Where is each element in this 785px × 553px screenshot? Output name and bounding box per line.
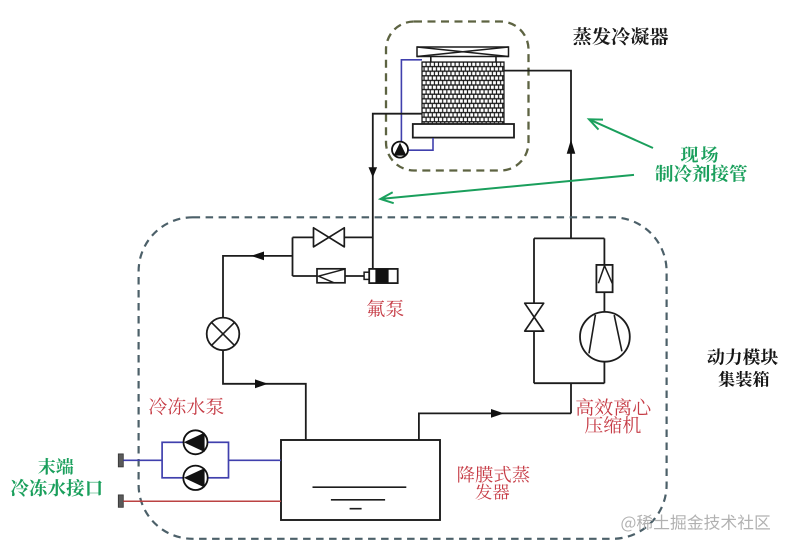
suction line from evaporator (419, 413, 571, 440)
flow arrow left (251, 252, 264, 261)
line from expansion valve to evaporator (223, 350, 306, 440)
suction service valve (vertical bowtie) (525, 303, 544, 331)
spray water pipe (blue) (401, 60, 422, 142)
label: terminal (green) line1 (38, 458, 73, 475)
fluorine pump F1 (364, 272, 370, 279)
chilled water supply line (blue) (123, 459, 162, 461)
label: on-site (green) line1 (681, 146, 718, 163)
condenser coil block (422, 62, 504, 124)
label: high-efficiency centrifugal (red) line1 (576, 398, 650, 416)
liquid level marks (313, 487, 407, 509)
label: fluorine pump (red) (367, 300, 403, 317)
label: refrigerant piping (green) line2 (655, 164, 747, 182)
chilled water pump parallel loop (blue) (162, 442, 228, 478)
fan support legs (431, 57, 496, 63)
watermark: juejin community (621, 514, 770, 531)
power module container dashed enclosure (139, 217, 667, 539)
label: chilled water pump (red) (149, 397, 223, 415)
chilled water return line (red) (123, 500, 281, 502)
label: falling film evaporator (red) line1 (458, 466, 529, 483)
discharge check valve (596, 265, 612, 292)
falling-film evaporator vessel (281, 440, 440, 520)
green leader arrow to liquid pipe (383, 175, 635, 199)
label: power module (black) line1 (707, 348, 777, 365)
evaporative condenser dashed enclosure (386, 22, 529, 171)
flow arrow down on liquid line (369, 167, 378, 177)
condenser basin/base (413, 124, 514, 138)
label: chilled water interface (green) line2 (11, 479, 102, 497)
chilled water supply flange (118, 454, 123, 467)
label: container (black) line2 (719, 371, 770, 387)
condenser fan housing (417, 47, 509, 57)
liquid line: coil to fluorine pump (down) (373, 114, 422, 269)
label: compressor (red) line2 (585, 416, 641, 434)
compressor loop piping (534, 238, 604, 413)
flow arrow right on suction line (491, 409, 504, 418)
liquid line to expansion valve (223, 256, 293, 318)
check valve before fluorine pump (293, 275, 365, 277)
green leader arrow to discharge pipe (591, 120, 653, 148)
chilled water pump P1 (184, 430, 208, 454)
flow arrow right (255, 379, 268, 388)
chilled water pump P2 (183, 466, 207, 490)
label: evaporative condenser (black title) (573, 27, 668, 45)
expansion valve (circle-X) (207, 318, 240, 351)
flow arrow up on discharge line (567, 140, 576, 154)
chilled water return flange (118, 495, 123, 507)
bypass junction stub (292, 237, 294, 276)
centrifugal compressor (580, 312, 630, 362)
label: falling film evaporator (red) line2 (476, 484, 510, 500)
spray pump (392, 142, 408, 158)
bypass gate valve (horizontal bowtie) (293, 236, 373, 238)
discharge line: compressor loop up to coil (504, 71, 571, 239)
